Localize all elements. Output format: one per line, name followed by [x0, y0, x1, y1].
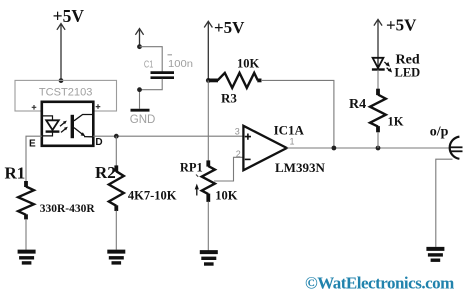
wire to C1 — [140, 47, 163, 72]
LED red — [372, 58, 385, 70]
svg-text:R4: R4 — [349, 97, 366, 112]
pin mark left — [32, 105, 37, 110]
wire R4 to output — [377, 132, 379, 148]
wire D pin to comparator pin 3 — [93, 135, 243, 137]
wire E pin to R1 — [26, 136, 42, 181]
svg-text:LM393N: LM393N — [275, 160, 325, 175]
svg-text:o/p: o/p — [430, 125, 449, 140]
wire LED to R4 — [377, 70, 379, 90]
resistor R4 — [370, 89, 386, 133]
wire +5V rail down to RP1 — [207, 80, 209, 161]
svg-text:R1: R1 — [5, 164, 26, 183]
svg-text:+5V: +5V — [214, 18, 245, 37]
ground below R2 — [107, 252, 125, 263]
ground GND below C1 — [131, 109, 150, 112]
power +5V (left, TCST2103 supply) — [57, 24, 65, 80]
wire R3 to output node — [261, 80, 334, 148]
svg-text:2: 2 — [236, 149, 241, 159]
node R3 left — [206, 78, 211, 83]
node C1 top — [137, 44, 142, 49]
resistor R2 — [109, 165, 124, 211]
capacitor C1 — [151, 73, 175, 78]
svg-text:1: 1 — [290, 137, 295, 147]
wire R1 to ground — [25, 219, 27, 250]
svg-text:1K: 1K — [388, 115, 404, 129]
svg-text:3: 3 — [235, 127, 240, 137]
potentiometer RP1 — [202, 160, 215, 202]
svg-text:E: E — [29, 138, 36, 149]
svg-text:10K: 10K — [215, 189, 238, 203]
svg-text:RP1: RP1 — [180, 161, 203, 175]
wire R2 to ground — [115, 211, 117, 250]
ground below RP1 — [200, 252, 218, 264]
power +5V arrow (C1 rail) — [135, 29, 143, 47]
svg-text:C1: C1 — [144, 60, 154, 71]
node: +5V into TCST2103 — [59, 78, 64, 83]
svg-text:R2: R2 — [95, 163, 116, 182]
svg-text:D: D — [95, 137, 102, 148]
svg-text:100n: 100n — [168, 58, 193, 70]
RP1 wiper arrow — [196, 188, 198, 196]
resistor R3 — [208, 73, 261, 88]
svg-text:R3: R3 — [221, 91, 237, 106]
phototransistor inside TCST2103 — [71, 115, 74, 138]
svg-text:TCST2103: TCST2103 — [39, 87, 93, 99]
node output/R4 — [376, 146, 381, 151]
power +5V (middle, R3/RP1 rail) — [204, 21, 212, 80]
IR LED inside TCST2103 — [43, 116, 59, 136]
wire jack sleeve to ground — [436, 159, 453, 247]
pin mark right — [96, 104, 101, 109]
svg-text:10K: 10K — [237, 57, 260, 71]
light emission arrows — [60, 121, 68, 133]
node C1 bottom — [137, 87, 142, 92]
svg-text:+5V: +5V — [386, 16, 417, 35]
node output/R3 — [332, 146, 337, 151]
svg-text:©WatElectronics.com: ©WatElectronics.com — [305, 274, 454, 293]
LED emission arrows — [384, 62, 392, 73]
ground below o/p jack — [426, 249, 444, 260]
resistor R1 — [18, 181, 34, 219]
svg-text:330R-430R: 330R-430R — [40, 203, 96, 215]
wire RP1 to ground — [207, 202, 209, 252]
svg-text:+5V: +5V — [53, 6, 85, 26]
photo interrupter TCST2103 package outline — [15, 80, 117, 111]
svg-text:GND: GND — [130, 114, 156, 126]
ground below R1 — [18, 252, 36, 263]
svg-text:LED: LED — [395, 66, 421, 80]
wire RP1 wiper to pin 2 — [214, 157, 243, 181]
power +5V (right, LED rail) — [374, 19, 382, 57]
wire junction to R2 — [115, 136, 117, 166]
svg-text:4K7-10K: 4K7-10K — [128, 188, 177, 202]
TCST2103 body — [42, 102, 94, 146]
op-amp IC1A — [243, 126, 286, 171]
node D / R2 junction — [114, 134, 119, 139]
svg-text:IC1A: IC1A — [274, 122, 305, 137]
wire comparator output — [287, 147, 450, 149]
wire C1 to gnd — [140, 79, 163, 109]
